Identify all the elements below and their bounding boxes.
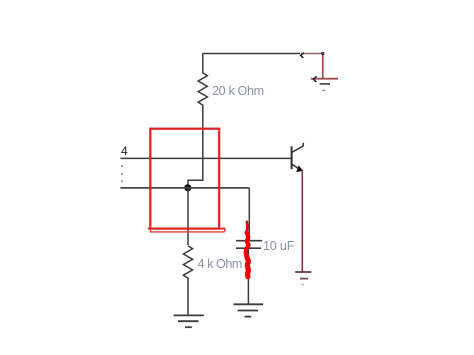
wire: red horizontal top right <box>301 53 323 55</box>
wire: C1 vertical drop <box>248 188 250 240</box>
ground G4 (emitter, maroon) bar1 <box>295 271 311 273</box>
ground G3 bar2 <box>178 320 199 322</box>
capacitor C1 top plate <box>236 240 262 242</box>
ground G2 bar3 <box>245 316 252 318</box>
transistor Q1 emitter arrowhead <box>296 165 303 172</box>
red marker squiggle over C1 (bottom thick stroke) <box>247 257 249 277</box>
red marker squiggle over C1 (middle stroke) <box>246 233 249 258</box>
wire: jog from R1 bottom to node <box>188 180 204 188</box>
resistor R2 4 k Ohm (vertical zigzag) <box>183 246 192 316</box>
node A junction dot <box>184 184 191 191</box>
ground G1 (red, top right) bar1 <box>311 78 338 80</box>
transistor Q1 emitter lead <box>292 164 299 169</box>
wire: top horizontal from R1 to arrow <box>203 53 300 55</box>
label: pin number 4 <box>121 144 128 158</box>
wire: node down to R2 <box>187 188 189 245</box>
arrowhead left-pointing at wire join <box>301 53 304 58</box>
arrowhead at ground G1 <box>313 76 316 82</box>
label: 20 k Ohm <box>212 84 264 98</box>
ground G3 (under R2) bar1 <box>174 314 204 316</box>
red marker squiggle over C1 (top thin stroke) <box>245 222 248 233</box>
wire: red vertical to ground <box>322 53 324 79</box>
ground G3 bar3 <box>185 326 192 328</box>
red rectangle bottom edge overshoot <box>148 228 226 230</box>
ground G2 bar2 <box>238 310 258 312</box>
label: 10 uF <box>263 239 294 253</box>
wire: emitter maroon vertical <box>301 170 303 272</box>
wire: C1 to ground <box>247 249 249 305</box>
transistor Q1 base bar <box>291 146 293 169</box>
red highlight rectangle <box>150 129 219 229</box>
ground G1 bar2 <box>320 83 330 85</box>
wire: lower horizontal through node to C1 <box>120 187 249 189</box>
capacitor C1 bottom plate <box>236 247 261 249</box>
transistor Q1 collector lead <box>292 143 304 153</box>
wire: base wire horizontal with pin 4 <box>120 157 291 159</box>
ground G2 (under C1) bar1 <box>234 303 264 305</box>
ground G4 bar3 <box>301 283 303 285</box>
node: corner junction red wire <box>321 52 324 55</box>
label: 4 k Ohm <box>198 257 242 271</box>
ellipsis dots below pin 4 <box>121 165 123 167</box>
ground G1 bar3 <box>322 89 325 91</box>
red rectangle doubled bottom line <box>150 229 225 232</box>
resistor R1 20 k Ohm (vertical zigzag) <box>198 53 207 181</box>
ground G4 bar2 <box>300 278 308 280</box>
